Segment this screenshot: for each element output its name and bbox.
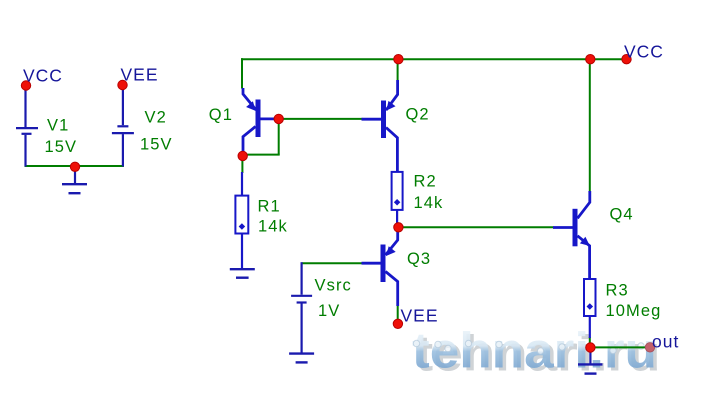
wire Q1 base feedback vertical (278, 119, 280, 155)
svg-text:Q4: Q4 (610, 205, 634, 223)
svg-text:VCC: VCC (23, 65, 63, 85)
svg-text:R1: R1 (258, 197, 281, 215)
node dot V1 top VCC (21, 81, 30, 90)
node dot R3 bottom out (586, 343, 595, 352)
ground below out node (578, 348, 603, 374)
node dot R2 bottom (394, 223, 403, 232)
node dot Q1 base (274, 114, 283, 123)
svg-text:1V: 1V (318, 302, 340, 320)
svg-text:14k: 14k (414, 194, 444, 212)
svg-text:VEE: VEE (121, 64, 159, 84)
transistor Q1 (243, 88, 278, 153)
svg-text:V1: V1 (47, 116, 69, 134)
svg-text:R2: R2 (414, 172, 437, 190)
svg-text:Vsrc: Vsrc (315, 277, 352, 295)
wire drop to Q4 collector (589, 58, 591, 192)
node dot VEE below Q3 (393, 319, 402, 328)
ground below R1 (230, 269, 255, 278)
svg-text:VEE: VEE (401, 306, 439, 326)
node dot V2 top VEE (118, 80, 127, 89)
wire drop to Q2 emitter (397, 58, 399, 81)
ground below Vsrc (289, 354, 314, 363)
wire R2 bottom node to Q4 base (398, 226, 553, 228)
wire out node horizontal (590, 346, 650, 348)
voltage source Vsrc battery (291, 262, 312, 353)
wire bottom rail between V1 and V2 (25, 165, 124, 167)
watermark gear dots (413, 340, 644, 354)
wire node to R1 top (241, 156, 243, 173)
node dot rail end VCC (622, 55, 631, 64)
transistor Q4 (553, 191, 590, 280)
wire top VCC rail (241, 58, 627, 60)
battery V2 (112, 85, 134, 167)
transistor Q2 (362, 80, 398, 173)
node dot rail at Q2 (394, 55, 403, 64)
watermark tehnari.ru (412, 322, 657, 378)
node dot Q1 collector / R1 (238, 151, 247, 160)
resistor R2 (392, 172, 403, 227)
ground below bottom rail (62, 167, 87, 193)
svg-text:Q1: Q1 (209, 106, 233, 124)
wire Q3 base horizontal (302, 262, 363, 264)
wire R3 bottom to out node (589, 337, 591, 347)
node dot rail at Q4 (586, 55, 595, 64)
watermark tehnari.ru shadow (416, 325, 661, 381)
transistor Q3 (362, 228, 398, 306)
svg-text:out: out (652, 331, 679, 351)
node dot out terminal (645, 343, 654, 352)
wire Q3 collector to VEE node (397, 305, 399, 322)
svg-text:10Meg: 10Meg (606, 302, 662, 320)
svg-text:14k: 14k (258, 217, 288, 235)
svg-text:15V: 15V (140, 136, 173, 154)
svg-text:VCC: VCC (624, 42, 664, 62)
svg-text:R3: R3 (606, 282, 629, 300)
svg-text:Q2: Q2 (406, 106, 430, 124)
node dot bottom rail ground (70, 162, 79, 171)
resistor R1 (235, 172, 248, 269)
svg-text:Q3: Q3 (407, 250, 431, 268)
battery V1 (16, 86, 38, 167)
svg-text:V2: V2 (145, 108, 167, 126)
wire left drop to Q1 emitter (241, 58, 243, 88)
wire Q1 base to Q2 base (277, 118, 363, 120)
resistor R3 (584, 279, 596, 338)
wire Q1 feedback horizontal to collector (242, 154, 279, 156)
svg-text:15V: 15V (45, 138, 78, 156)
